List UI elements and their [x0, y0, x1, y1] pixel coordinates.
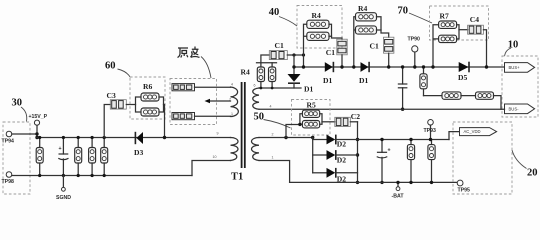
svg-text:R6: R6	[143, 82, 152, 91]
wire main rectifier rail	[294, 66, 505, 68]
resistor (input filter 2)	[77, 138, 79, 176]
resistor (series 1)	[442, 92, 461, 99]
resistor R6 bottom	[141, 108, 159, 116]
connector AC_VDD	[460, 128, 497, 136]
wire R6 to bus	[164, 105, 165, 138]
connector BUS-	[505, 104, 535, 114]
svg-text:TP94: TP94	[2, 139, 15, 145]
diode D3	[134, 132, 136, 144]
svg-text:C3: C3	[107, 91, 116, 100]
svg-text:6: 6	[254, 84, 256, 88]
svg-text:TP90: TP90	[408, 37, 421, 43]
wire block1 to T1 pin 4	[195, 86, 231, 88]
T1 winding A (left top)	[231, 87, 239, 117]
wire +15V_P stem	[36, 125, 38, 137]
svg-text:C1: C1	[370, 41, 379, 50]
svg-text:R4: R4	[241, 68, 250, 77]
leader 10	[505, 48, 512, 56]
svg-text:R4: R4	[358, 4, 367, 13]
svg-text:40: 40	[269, 7, 280, 18]
svg-text:1: 1	[272, 156, 274, 160]
wire to BUS- rail	[494, 96, 502, 110]
wire R7 right join	[457, 25, 459, 39]
T1 winding D (right bottom)	[252, 138, 259, 161]
resistor R5 top	[302, 110, 319, 117]
resistor R5 bottom	[302, 121, 319, 128]
capacitor (output electrolytic)	[381, 140, 383, 153]
svg-text:+: +	[59, 146, 62, 152]
svg-text:D2: D2	[337, 155, 346, 164]
capacitor (input electrolytic)	[62, 138, 64, 155]
diode D1 (stage 1)	[325, 62, 333, 72]
svg-text:D1: D1	[323, 76, 332, 85]
wire T1 pin6 rail	[259, 87, 301, 89]
wire to C1 stage1	[332, 36, 343, 39]
svg-text:D1: D1	[304, 85, 313, 94]
svg-text:D5: D5	[458, 73, 467, 82]
wire TP98 to return bus	[12, 175, 192, 177]
svg-text:BUS+: BUS+	[509, 65, 521, 70]
connector BUS+	[505, 63, 535, 73]
resistor R7 top	[439, 21, 457, 28]
label 原边 (drawn strokes)	[178, 47, 200, 58]
svg-text:C2: C2	[351, 112, 360, 121]
svg-text:20: 20	[527, 168, 538, 179]
wire to C1 stage2	[381, 30, 389, 37]
wire TP94 to +15V node	[12, 133, 37, 135]
wire R5 branch	[286, 125, 300, 138]
capacitor (filter, after stage 2)	[402, 67, 404, 84]
terminal TP95	[457, 180, 463, 186]
dashed box primary drive	[170, 79, 217, 125]
svg-text:+: +	[388, 148, 391, 154]
wire block2 to T1 pin 1	[195, 115, 231, 117]
svg-text:4: 4	[270, 105, 272, 109]
T1 winding B (left bottom)	[231, 138, 239, 161]
svg-text:R7: R7	[440, 12, 449, 21]
svg-text:9: 9	[217, 132, 219, 136]
wire T1 pin 7 tap	[210, 100, 231, 102]
wire R5 left join	[300, 114, 303, 125]
svg-text:SGND: SGND	[56, 195, 71, 201]
diode D1 (snubber, down)	[288, 74, 301, 82]
svg-text:C4: C4	[470, 15, 479, 24]
wire T1 pin2 node	[259, 137, 313, 139]
resistor (load 1)	[410, 140, 412, 183]
leader 原边	[201, 57, 211, 79]
resistor R6 top	[141, 93, 159, 101]
wire R4 stage1 right join	[329, 24, 332, 36]
resistor (load 2)	[431, 140, 433, 183]
terminal TP98	[6, 172, 12, 178]
wire R7 left join	[433, 25, 439, 67]
resistor (bleeder vertical)	[423, 67, 425, 96]
svg-text:60: 60	[105, 60, 116, 71]
diode D5	[459, 62, 469, 72]
svg-text:70: 70	[398, 5, 409, 16]
dashed box 10	[502, 56, 538, 117]
svg-text:TP95: TP95	[458, 187, 471, 193]
wire C2 right down	[357, 122, 359, 183]
wire T1 pin10 to return bus	[192, 161, 231, 176]
net port block 1	[172, 84, 195, 91]
wire secondary bottom rail	[290, 181, 458, 183]
diode D1 (stage 2)	[361, 62, 369, 72]
svg-text:30: 30	[12, 98, 23, 109]
resistor R4a vertical	[260, 63, 262, 88]
dashed box 30	[3, 122, 30, 194]
wire bleeder chain	[424, 95, 443, 97]
wire D2c out	[336, 172, 358, 174]
wire D2a out	[336, 139, 449, 141]
dashed box 70	[430, 6, 489, 40]
wire R6 right join	[159, 97, 164, 112]
T1 core	[242, 82, 245, 168]
wire D2 left bus	[312, 138, 314, 173]
wire R6 left join	[136, 97, 142, 112]
dashed box 60	[130, 77, 165, 119]
T1 winding C (right top)	[253, 88, 259, 109]
svg-text:+15V_P: +15V_P	[29, 114, 48, 120]
net port block 2	[172, 113, 195, 120]
leader 20	[512, 150, 527, 169]
svg-text:D2: D2	[337, 140, 346, 149]
dashed box 40	[297, 6, 342, 49]
wire snubber top rail	[257, 62, 277, 64]
svg-text:10: 10	[213, 155, 217, 159]
diode D2 a	[313, 139, 327, 141]
svg-text:C1: C1	[326, 48, 335, 57]
wire	[461, 95, 476, 97]
resistor (series 2)	[476, 92, 494, 99]
ground -BAT	[397, 182, 399, 186]
svg-text:R4: R4	[312, 11, 321, 20]
svg-text:T1: T1	[231, 172, 243, 183]
wire secondary top rail to BUS-	[259, 108, 505, 110]
leader 60	[118, 69, 131, 78]
wire R4 stage1 left join	[304, 24, 307, 67]
svg-text:TP93: TP93	[424, 128, 437, 134]
svg-text:4: 4	[231, 83, 233, 87]
wire primary +15V bus	[37, 137, 231, 139]
wire T1 pin1 to bottom rail	[259, 161, 290, 183]
diode D2 c	[313, 172, 327, 174]
leader 70	[409, 13, 432, 23]
terminal TP94	[6, 131, 12, 137]
dashed box R5	[292, 100, 331, 136]
resistor (input filter 1)	[39, 138, 41, 176]
svg-text:-BAT: -BAT	[392, 194, 405, 200]
test point TP93	[428, 120, 434, 126]
resistor (input filter 3)	[91, 138, 93, 176]
svg-text:D3: D3	[134, 148, 143, 157]
leader 40	[279, 17, 297, 27]
wire C3 branch vertical	[104, 105, 110, 138]
leader 30	[21, 107, 27, 122]
svg-text:C1: C1	[275, 41, 284, 50]
leader 50	[264, 120, 291, 129]
ground SGND	[62, 176, 64, 188]
svg-text:1: 1	[231, 112, 233, 116]
resistor R7 bottom	[439, 35, 457, 42]
svg-text:AC_VDD: AC_VDD	[464, 129, 481, 134]
svg-text:TP98: TP98	[2, 179, 15, 185]
junction	[35, 132, 38, 135]
svg-text:2: 2	[272, 133, 274, 137]
resistor R4 stage1 bottom	[307, 32, 329, 40]
wire R4 stage2 right join	[377, 17, 382, 30]
diode D2 b	[313, 154, 327, 156]
wire C1 right down	[293, 55, 295, 74]
wire R5 right join	[320, 114, 322, 125]
svg-text:BUS-: BUS-	[509, 106, 520, 111]
wire R4 stage2 left join	[354, 17, 356, 67]
svg-text:D1: D1	[359, 76, 368, 85]
resistor R4b vertical	[271, 63, 273, 88]
resistor R4 stage2 bottom	[356, 26, 377, 34]
svg-text:50: 50	[254, 112, 265, 123]
resistor R4 stage1 top	[307, 20, 329, 28]
wire D2b out	[336, 154, 358, 156]
wire output to AC_VDD	[449, 132, 460, 140]
svg-text:R5: R5	[307, 101, 316, 110]
junction	[35, 136, 38, 139]
dashed box 20	[453, 122, 512, 194]
svg-text:7: 7	[229, 98, 231, 102]
resistor (input filter 4)	[103, 138, 105, 176]
resistor R4 stage2 top	[356, 13, 377, 21]
